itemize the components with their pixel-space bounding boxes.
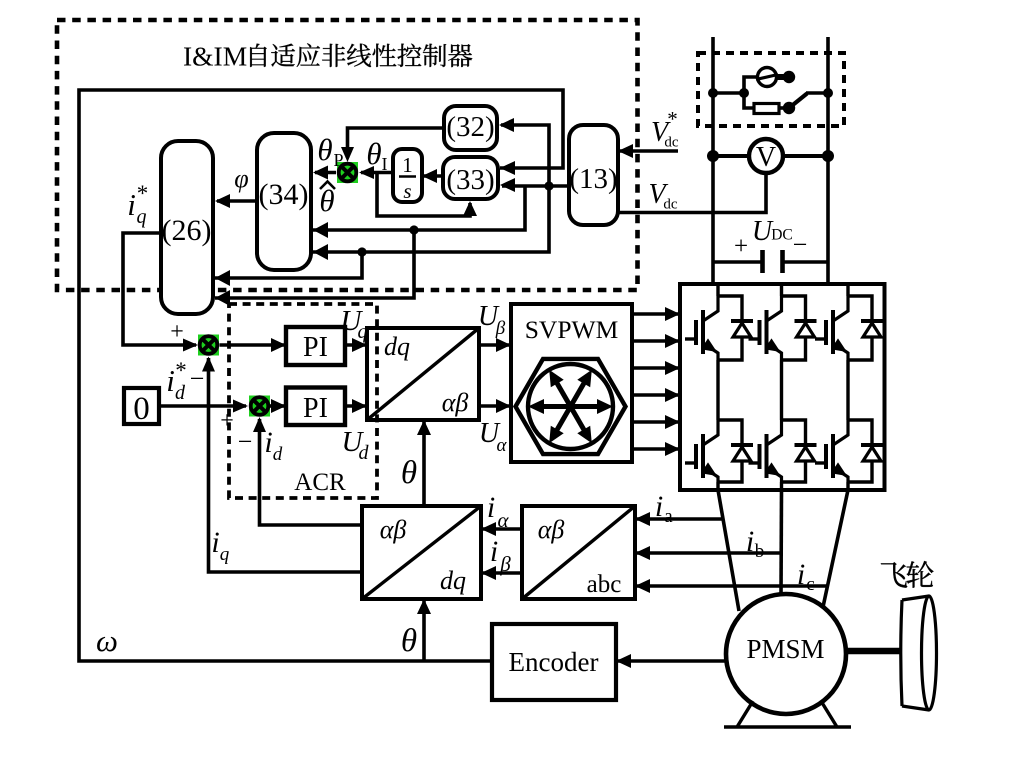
svg-text:V: V — [756, 142, 776, 173]
wire inverter leg 3 — [846, 284, 849, 490]
wire omega feedback: Encoder output left along bottom, up left side, along top into (33) — [79, 90, 563, 661]
label theta upper — [401, 455, 417, 491]
arrowhead theta into dq-ab — [417, 420, 431, 435]
label U_DC — [752, 216, 793, 247]
wire SVPWM gate signal 3 to inverter — [632, 361, 680, 375]
label Vdc — [648, 179, 677, 213]
svg-text:dq: dq — [440, 566, 466, 595]
arrowhead id* into junction 2 — [233, 400, 248, 413]
node dot at x414 on y230 line — [409, 225, 418, 234]
arrowhead Vdc* into (13) — [618, 144, 633, 158]
wire junction 1 to PI 1 — [220, 343, 285, 347]
svg-text:−: − — [238, 427, 253, 456]
svg-text:DC: DC — [771, 227, 793, 244]
svg-text:b: b — [755, 541, 765, 562]
wire branch down from (13) output to (34) input — [313, 186, 549, 252]
arrowhead ic — [635, 579, 650, 593]
svg-text:i: i — [166, 363, 175, 398]
svg-text:θ: θ — [366, 136, 381, 171]
svg-text:I&IM: I&IM — [183, 41, 247, 72]
label U_beta — [478, 301, 506, 339]
label ia — [655, 490, 673, 527]
arrowhead into (33) right lower — [500, 178, 515, 192]
wire iq feedback from ab-dq to junction 1 — [209, 358, 363, 572]
arrowhead into (32) — [499, 118, 514, 132]
svg-text:φ: φ — [234, 164, 248, 193]
node dot left bus voltmeter — [707, 150, 719, 162]
label Uq — [341, 305, 368, 343]
dashed box: I&IM adaptive nonlinear controller boundary — [57, 20, 638, 290]
node dot lower contact — [783, 102, 795, 114]
wire U_beta to SVPWM — [479, 343, 509, 347]
summing junction theta-hat (green X) — [337, 162, 358, 183]
label omega — [96, 623, 118, 658]
PMSM stand — [724, 701, 851, 727]
IGBT top leg 1 with freewheel diode — [685, 296, 753, 360]
block (32) — [444, 106, 497, 150]
svg-text:i: i — [655, 490, 663, 523]
svg-text:αβ: αβ — [538, 515, 565, 544]
arrowhead into Encoder — [616, 654, 631, 668]
svg-text:I: I — [382, 154, 388, 174]
wire SVPWM gate signal 1 to inverter — [632, 307, 680, 321]
label U_alpha — [479, 418, 508, 456]
arrowhead theta into ab-dq — [417, 599, 431, 614]
block 1/s integrator — [393, 149, 422, 203]
svg-text:d: d — [359, 442, 370, 464]
capacitor plate right — [780, 250, 785, 273]
wire PI 2 output Ud to dq-ab transform — [345, 404, 365, 408]
wire Vdc measurement to (13) — [618, 173, 766, 213]
wire resistor to contact — [779, 106, 785, 110]
svg-text:(13): (13) — [569, 163, 617, 195]
label plus at junction 1 — [170, 319, 184, 345]
arrowhead theta_I into junction — [359, 166, 374, 179]
node dot right bus voltmeter — [822, 150, 834, 162]
arrowhead into PI 2 — [271, 399, 286, 413]
wire chopper upper branch — [744, 77, 757, 93]
label ACR — [294, 469, 346, 496]
svg-text:abc: abc — [587, 571, 622, 598]
label ib — [746, 525, 764, 562]
svg-text:i: i — [490, 535, 498, 568]
node dot left bus chopper — [708, 88, 718, 98]
svg-text:ω: ω — [96, 623, 118, 658]
svg-text:α: α — [497, 508, 509, 532]
svg-text:q: q — [137, 206, 147, 228]
label id* — [166, 358, 187, 404]
wire branch from y230 down to (26) input b — [215, 230, 414, 298]
wire (33) output to 1/s — [424, 174, 443, 178]
svg-text:i: i — [487, 491, 495, 524]
wire U_alpha to SVPWM — [479, 404, 509, 408]
arrowhead U_alpha into SVPWM — [496, 399, 511, 413]
arrowhead into (26) input b — [215, 290, 230, 306]
svg-text:c: c — [806, 574, 814, 595]
capacitor plate left — [760, 250, 765, 273]
svg-text:d: d — [175, 382, 186, 404]
block Encoder — [492, 624, 616, 700]
wire ib to abc transform — [637, 551, 782, 555]
node dot on (13) output — [544, 181, 553, 190]
IGBT bottom leg 2 with freewheel diode — [749, 420, 817, 482]
svg-text:dc: dc — [663, 197, 678, 213]
svg-text:ACR: ACR — [294, 469, 346, 496]
wire (13) output to (33) right input — [502, 184, 569, 188]
block PI 1 — [286, 327, 345, 365]
label plus capacitor — [734, 233, 748, 260]
svg-text:(34): (34) — [259, 178, 309, 211]
title label: I&IM adaptive nonlinear controller — [183, 41, 472, 72]
svg-text:dq: dq — [384, 332, 410, 361]
wire id feedback from ab-dq to junction 2 — [260, 419, 363, 525]
arrowhead Ud into dq-ab — [352, 399, 367, 413]
block alpha-beta to dq transform — [362, 506, 481, 599]
label Vdc* — [651, 107, 679, 151]
svg-text:d: d — [273, 444, 283, 465]
block (26) — [161, 141, 213, 314]
switch blade — [789, 94, 807, 109]
summing junction 2 (green X) — [249, 396, 270, 417]
svg-text:αβ: αβ — [442, 388, 469, 417]
wire PI 1 output Uq to dq-ab transform — [345, 343, 365, 347]
wire (32) output to theta junction top — [348, 128, 445, 158]
arrowhead iq into junction 1 — [202, 357, 215, 372]
wire theta into dq-ab bottom — [422, 422, 426, 506]
svg-text:(26): (26) — [162, 214, 212, 247]
arrowhead i_alpha — [481, 522, 496, 536]
svg-text:+: + — [734, 233, 748, 260]
label minus at junction 2 — [238, 427, 253, 456]
label phi — [234, 164, 248, 193]
label ic — [797, 558, 815, 595]
node dot upper contact — [783, 71, 795, 83]
wire theta into ab-dq bottom — [422, 601, 426, 661]
wire left bus to voltmeter — [713, 154, 749, 158]
label theta_P — [317, 132, 343, 170]
block dq to alpha-beta transform — [367, 328, 479, 420]
wire junction 2 to PI 2 — [270, 404, 284, 408]
svg-text:+: + — [220, 408, 234, 434]
label minus at junction 1 — [190, 364, 205, 393]
svg-text:i: i — [211, 526, 219, 559]
svg-text:SVPWM: SVPWM — [525, 315, 619, 344]
breaker circle in chopper — [756, 68, 778, 87]
svg-text:dc: dc — [664, 135, 679, 151]
label minus capacitor — [793, 230, 808, 259]
block PI 2 — [286, 388, 345, 426]
wire voltmeter to right bus — [783, 154, 828, 158]
block (33) — [443, 157, 498, 199]
voltmeter V circle — [749, 139, 783, 173]
arrowhead theta-hat into (34) — [313, 166, 328, 180]
wire DC bus right — [826, 37, 830, 284]
block abc to alpha-beta transform — [522, 506, 635, 599]
node dot at x362 on y252 line — [357, 247, 366, 256]
arrowhead into (34) lower right a — [313, 222, 328, 238]
label i_beta — [490, 535, 511, 576]
svg-text:PI: PI — [303, 393, 328, 424]
PMSM motor circle — [726, 594, 846, 714]
svg-text:*: * — [175, 358, 187, 383]
svg-text:Encoder: Encoder — [509, 647, 599, 677]
wire phase c to PMSM — [823, 490, 848, 607]
arrowhead Uq into dq-ab — [352, 338, 367, 352]
svg-text:*: * — [667, 107, 678, 131]
shaft PMSM to flywheel — [846, 648, 901, 655]
label id — [264, 426, 282, 465]
svg-text:i: i — [264, 426, 272, 459]
block (34) — [257, 133, 311, 270]
arrowhead U_beta into SVPWM — [496, 338, 511, 352]
svg-text:β: β — [495, 318, 506, 339]
svg-text:−: − — [190, 364, 205, 393]
arrowhead into (34) lower right b — [313, 244, 328, 260]
wire theta-hat junction output to (34) — [315, 171, 336, 175]
node dot chopper stem — [739, 88, 749, 98]
flywheel cylinder — [901, 596, 937, 710]
svg-text:θ: θ — [401, 623, 417, 659]
block zero reference — [124, 388, 159, 427]
wire Vdc* reference input — [620, 149, 678, 153]
svg-text:+: + — [170, 319, 184, 345]
label theta_I — [366, 136, 387, 174]
node dot right bus chopper — [823, 88, 833, 98]
label plus at junction 2 — [220, 408, 234, 434]
svg-text:PMSM: PMSM — [746, 634, 824, 664]
arrowhead into (33) bottom — [463, 201, 477, 216]
arrowhead into (26) input a — [215, 270, 230, 286]
box inverter bridge — [680, 284, 885, 490]
wire SVPWM gate signal 4 to inverter — [632, 388, 680, 402]
resistor braking — [754, 104, 779, 114]
svg-text:αβ: αβ — [380, 515, 407, 544]
IGBT bottom leg 3 with freewheel diode — [815, 420, 883, 482]
svg-text:a: a — [664, 506, 673, 527]
svg-text:α: α — [497, 435, 508, 456]
wire id* from 0 box to summing junction 2 — [159, 404, 246, 408]
arrowhead i_beta — [481, 566, 496, 580]
svg-text:β: β — [499, 552, 511, 576]
arrowhead theta_P into junction top — [341, 147, 354, 162]
svg-text:(33): (33) — [446, 164, 494, 196]
wire capacitor to right bus — [783, 260, 829, 264]
svg-text:θ: θ — [317, 132, 332, 167]
arrowhead iq* into junction 1 — [183, 339, 198, 352]
wire phi from (34) to (26) — [217, 199, 257, 203]
label flywheel (feilun) — [881, 561, 934, 588]
wire chopper branch stem — [713, 91, 744, 95]
svg-text:θ: θ — [401, 455, 417, 491]
svg-text:P: P — [333, 150, 343, 170]
wire blade to right bus — [806, 91, 828, 95]
wire i_beta between transforms — [483, 571, 522, 575]
arrowhead omega into (33) — [500, 161, 515, 175]
svg-text:1: 1 — [402, 153, 413, 177]
wire DC bus left — [711, 37, 715, 284]
wire ic to abc transform — [637, 584, 827, 588]
arrowhead into 1/s — [422, 169, 437, 183]
label Ud — [342, 426, 370, 464]
wire 1/s output theta_I to junction — [361, 171, 393, 175]
IGBT bottom leg 1 with freewheel diode — [685, 420, 753, 482]
IGBT top leg 2 with freewheel diode — [749, 296, 817, 360]
wire PMSM to Encoder — [618, 659, 728, 663]
wire branch up to (32) input — [501, 125, 549, 186]
wire ia to abc transform — [637, 517, 723, 521]
label theta lower — [401, 623, 417, 659]
wire inverter leg 2 — [780, 284, 783, 490]
IGBT top leg 3 with freewheel diode — [815, 296, 883, 360]
svg-text:i: i — [127, 187, 136, 222]
svg-text:i: i — [797, 558, 805, 591]
wire SVPWM gate signal 2 to inverter — [632, 334, 680, 348]
arrowhead phi into (26) — [215, 194, 230, 208]
arrowhead id into junction 2 — [253, 417, 266, 432]
svg-text:−: − — [793, 230, 808, 259]
svg-text:(32): (32) — [446, 111, 494, 143]
label theta-hat — [319, 182, 335, 219]
wire SVPWM gate signal 6 to inverter — [632, 442, 680, 456]
wire left bus to capacitor — [713, 260, 762, 264]
dashed box braking chopper — [698, 53, 844, 126]
arrowhead ib — [635, 546, 650, 560]
arrowhead ia — [635, 512, 650, 526]
wire i_alpha between transforms — [483, 527, 522, 531]
wire phase b to PMSM — [779, 490, 783, 595]
wire breaker to contact — [776, 74, 786, 80]
dashed box ACR current regulator — [229, 304, 377, 498]
wire SVPWM gate signal 5 to inverter — [632, 415, 680, 429]
svg-text:*: * — [137, 181, 149, 206]
wire iq* from (26) down to summing junction 1 — [123, 233, 196, 345]
wire branch from y252 down to (26) input a — [215, 252, 362, 278]
wire chopper lower branch — [744, 93, 754, 108]
svg-text:q: q — [220, 544, 230, 565]
arrowhead into PI 1 — [271, 338, 286, 352]
svg-text:PI: PI — [303, 332, 328, 363]
label iq* — [127, 181, 148, 228]
label iq — [211, 526, 229, 565]
block SVPWM with space-vector hexagon icon — [511, 304, 632, 462]
block (13) — [569, 125, 618, 225]
wire tap x525 down to y230 line into (34) — [313, 186, 525, 230]
wire inverter leg 1 — [716, 284, 719, 490]
wire phase a to PMSM — [718, 490, 739, 611]
svg-text:i: i — [746, 525, 754, 558]
svg-text:0: 0 — [133, 391, 150, 427]
svg-text:s: s — [403, 179, 411, 203]
wire theta_I feedback branch to (33) bottom input — [377, 173, 470, 217]
label i_alpha — [487, 491, 510, 532]
summing junction 1 (green X) — [198, 335, 219, 356]
